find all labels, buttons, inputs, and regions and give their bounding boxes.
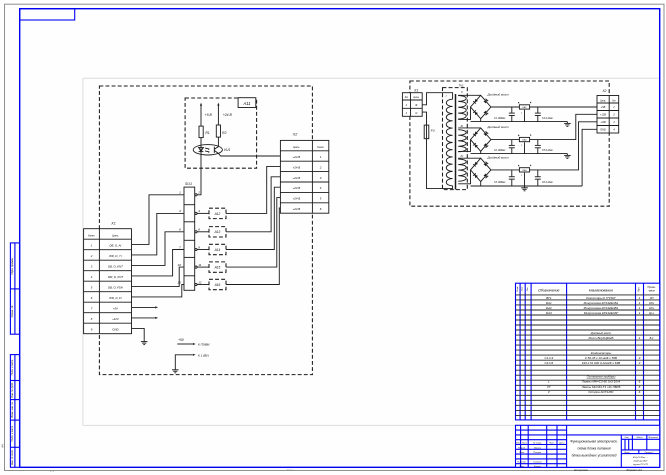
svg-text:Микросхема КР142ЕН5А: Микросхема КР142ЕН5А xyxy=(584,301,619,305)
svg-text:С1 1000мк: С1 1000мк xyxy=(494,118,506,120)
capacitor С1 1000мк xyxy=(511,107,513,113)
wire winding bottom to bridge VD5-VD8 left corner xyxy=(458,140,470,152)
svg-text:схема блока питания: схема блока питания xyxy=(577,447,611,451)
wire +12V output arrow xyxy=(132,317,156,319)
off-sheet K 1(VU) xyxy=(175,355,192,368)
svg-text:WR_D_FI: WR_D_FI xyxy=(109,296,121,300)
svg-text:+24 В: +24 В xyxy=(223,113,233,117)
svg-text:Х1: Х1 xyxy=(110,222,115,226)
SU1 right pin 4 junction xyxy=(195,212,197,214)
wire winding bottom to bridge VD9-VD12 left corner xyxy=(458,170,470,184)
svg-text:Перв. примен.: Перв. примен. xyxy=(10,257,14,275)
svg-text:-12В: -12В xyxy=(600,121,606,124)
svg-text:К 1.(ВУ): К 1.(ВУ) xyxy=(198,353,209,357)
SU1 right pin 12 junction xyxy=(195,283,197,285)
wire channel3 out to X2.3 xyxy=(530,122,597,170)
svg-text:12: 12 xyxy=(198,280,202,284)
svg-text:DA1: DA1 xyxy=(546,301,552,305)
svg-text:1:1: 1:1 xyxy=(50,469,54,473)
svg-text:Подп. и дата: Подп. и дата xyxy=(11,425,14,441)
left margin stamp column group 1 xyxy=(10,243,19,334)
wire SU1 to A16 xyxy=(197,284,209,286)
regulator DA3 xyxy=(519,168,529,172)
title block xyxy=(516,425,660,467)
svg-text:Утв.: Утв. xyxy=(519,466,524,468)
svg-text:Микросхема КР142ЕН8А: Микросхема КР142ЕН8А xyxy=(584,306,619,310)
svg-text:Масса: Масса xyxy=(637,437,644,439)
wire winding top to bridge VD9-VD12 xyxy=(458,157,481,159)
drawing area guide lines xyxy=(83,77,660,79)
wire X1 pin 4 to SU1 xyxy=(132,250,185,276)
wire GND to ground xyxy=(132,328,145,339)
element A14 (dashed box) xyxy=(209,244,226,254)
capacitor С5 0,22мк xyxy=(537,140,539,146)
wire A15 to X2 pin 5 xyxy=(226,198,280,268)
svg-text:А15: А15 xyxy=(214,266,221,270)
VU1 LED xyxy=(199,147,204,151)
VU1 phototransistor xyxy=(213,147,215,153)
svg-text:Ф: Ф xyxy=(415,103,417,107)
svg-text:+5V: +5V xyxy=(178,338,185,342)
svg-text:III: III xyxy=(461,124,464,128)
svg-text:II: II xyxy=(461,90,463,94)
svg-text:блока выходных усилителей: блока выходных усилителей xyxy=(572,454,617,458)
wire R1 to optocoupler LED xyxy=(200,138,202,146)
svg-text:Масштаб: Масштаб xyxy=(649,437,659,439)
svg-text:+24 В: +24 В xyxy=(293,186,301,190)
svg-text:С6 0,22мк: С6 0,22мк xyxy=(542,182,554,184)
net +5V arrow (A11) xyxy=(200,105,202,126)
svg-text:С2 1000мк: С2 1000мк xyxy=(494,150,506,152)
wire bridge VD5-VD8 bottom to rail xyxy=(480,151,482,153)
svg-text:Конт: Конт xyxy=(317,145,324,149)
svg-text:11: 11 xyxy=(198,263,201,267)
svg-text:Н.контр.: Н.контр. xyxy=(517,462,526,464)
svg-text:Х1: Х1 xyxy=(413,88,418,92)
svg-text:Пров.: Пров. xyxy=(519,452,525,454)
svg-text:+24 В: +24 В xyxy=(293,207,301,211)
svg-text:Справ. №: Справ. № xyxy=(10,305,14,317)
svg-text:Зона: Зона xyxy=(522,287,524,291)
svg-text:+24 В: +24 В xyxy=(293,165,301,169)
svg-text:А13: А13 xyxy=(214,230,221,234)
svg-text:Подп. и дата: Подп. и дата xyxy=(11,359,14,375)
wire bridge VD5-VD8 output xyxy=(491,139,519,141)
diode bridge VD9-VD12 xyxy=(471,158,491,181)
VU1 light arrows xyxy=(205,148,209,152)
svg-text:Резисторы К ГПЛНТ: Резисторы К ГПЛНТ xyxy=(586,296,617,300)
svg-text:А12: А12 xyxy=(214,212,221,216)
svg-text:Цепь: Цепь xyxy=(293,145,300,149)
svg-text:Лист: Лист xyxy=(623,452,629,454)
wire winding bottom to bridge VD1-VD4 left corner xyxy=(458,107,470,119)
svg-text:SU1: SU1 xyxy=(185,182,192,186)
rail channel 3 xyxy=(471,185,583,187)
left margin stamp column group 2 xyxy=(10,355,19,468)
wire regulator DA3 common pin xyxy=(524,173,526,186)
optocoupler VU1 xyxy=(193,145,222,155)
svg-text:1: 1 xyxy=(521,112,522,114)
power block boundary (dashed) xyxy=(410,81,609,206)
svg-text:Петров: Петров xyxy=(534,452,543,454)
capacitor С6 0,22мк xyxy=(537,170,539,177)
svg-text:Обозначение: Обозначение xyxy=(538,288,559,292)
svg-text:Оптрон АОТ128С: Оптрон АОТ128С xyxy=(588,390,614,394)
svg-text:Разраб.: Разраб. xyxy=(518,447,526,449)
wire SU1 to A14 xyxy=(197,249,209,251)
wire channel3 rail to X2.4 (GND) xyxy=(582,129,597,186)
svg-text:ЮУрГУ-Мех. ...: ЮУрГУ-Мех. ... xyxy=(633,457,649,459)
sub-block A11 boundary (dashed) xyxy=(185,98,257,168)
svg-text:Подп.: Подп. xyxy=(549,442,555,445)
ground (off-sheet) xyxy=(172,368,179,373)
svg-text:Лампы МН=С3-60 3х3-10х4: Лампы МН=С3-60 3х3-10х4 xyxy=(581,380,621,384)
wire A16 to X2 pin 6 xyxy=(226,208,280,285)
svg-text:DA2: DA2 xyxy=(546,306,552,310)
fuse FU1 xyxy=(424,125,429,139)
svg-text:+24 В: +24 В xyxy=(293,155,301,159)
BOM parts table xyxy=(516,283,660,420)
wire regulator DA2 common pin xyxy=(524,142,526,153)
svg-text:Козлов: Козлов xyxy=(534,466,542,468)
regulator DA1 xyxy=(519,105,529,109)
svg-text:R2: R2 xyxy=(222,131,226,135)
svg-text:Лист: Лист xyxy=(285,468,294,472)
svg-text:10: 10 xyxy=(177,263,181,267)
svg-text:К ПЭВМ: К ПЭВМ xyxy=(198,343,210,347)
wire R2 to optocoupler transistor xyxy=(217,137,219,147)
svg-text:Листов 1: Листов 1 xyxy=(644,452,654,454)
svg-text:Формат А4: Формат А4 xyxy=(626,468,642,472)
svg-text:КР.н: КР.н xyxy=(649,307,654,310)
wire X1.1 to primary top xyxy=(422,93,452,105)
element A15 (dashed box) xyxy=(209,262,226,272)
svg-text:А4: А4 xyxy=(0,444,4,448)
svg-text:DB_O_AI: DB_O_AI xyxy=(109,244,121,248)
sub-block A11 label box xyxy=(238,98,256,108)
top-left stamp box xyxy=(20,9,75,20)
svg-text:Кт: Кт xyxy=(405,97,408,99)
svg-text:N: N xyxy=(415,111,417,115)
svg-text:№ докум.: № докум. xyxy=(533,442,542,445)
net +24V arrow (A11) xyxy=(217,105,219,125)
svg-text:Остальные приборы: Остальные приборы xyxy=(587,375,617,379)
rail channel 1 xyxy=(471,121,568,123)
svg-text:Изм: Изм xyxy=(516,443,520,445)
svg-text:Дата: Дата xyxy=(558,443,565,445)
svg-text:Диодный мост: Диодный мост xyxy=(487,156,510,160)
svg-text:Взам. инв. №: Взам. инв. № xyxy=(11,402,14,418)
wire VU1 emitter to X2 pin 1 xyxy=(219,154,281,156)
svg-text:Иванов: Иванов xyxy=(534,447,542,449)
svg-text:Диодный мост: Диодный мост xyxy=(487,125,510,129)
svg-text:Поз.: Поз. xyxy=(527,287,529,291)
svg-text:1: 1 xyxy=(521,175,522,177)
wire fuse to primary bottom xyxy=(427,139,453,189)
resistor R2 xyxy=(216,125,220,137)
svg-text:Лит.: Лит. xyxy=(623,437,629,439)
SU1 right pin 9 junction xyxy=(195,248,197,250)
svg-text:1: 1 xyxy=(521,145,522,147)
wire A14 to X2 pin 4 xyxy=(226,187,280,249)
SU1 right pin 2 junction xyxy=(195,194,197,196)
svg-text:DB_O_KNT: DB_O_KNT xyxy=(108,265,123,269)
svg-text:Кол.: Кол. xyxy=(637,287,640,292)
svg-text:R1: R1 xyxy=(205,131,209,135)
transformer TV1 boundary (dashed) xyxy=(443,88,468,190)
svg-text:ВУ1: ВУ1 xyxy=(546,296,552,300)
svg-text:Диодный мост: Диодный мост xyxy=(590,331,612,335)
svg-text:VU1: VU1 xyxy=(224,148,231,152)
SU1 right pin 8 junction xyxy=(195,231,197,233)
svg-text:2: 2 xyxy=(319,165,322,169)
wire bridge VD9-VD12 bottom to rail xyxy=(480,182,482,186)
element A12 (dashed box) xyxy=(209,208,226,218)
svg-text:Наименование: Наименование xyxy=(589,288,613,292)
svg-text:А11: А11 xyxy=(242,101,250,106)
ground channel 2 xyxy=(564,154,571,159)
svg-text:Кр.н: Кр.н xyxy=(649,312,655,315)
svg-text:ТV1: ТV1 xyxy=(458,83,464,87)
svg-text:Сидоров: Сидоров xyxy=(533,461,542,464)
svg-text:С4 0,22мк: С4 0,22мк xyxy=(542,117,554,120)
svg-text:С3 1000мк: С3 1000мк xyxy=(494,182,506,184)
wire regulator DA1 common pin xyxy=(524,110,526,122)
svg-text:DA3: DA3 xyxy=(546,311,552,315)
svg-text:К10-17А 630 0,22мкФ х 63В: К10-17А 630 0,22мкФ х 63В xyxy=(582,361,620,365)
svg-text:+5 В: +5 В xyxy=(205,113,213,117)
rail channel 2 xyxy=(471,153,568,155)
wire X1 pin 2 to SU1 xyxy=(132,213,185,255)
svg-text:КР.н: КР.н xyxy=(649,302,654,305)
svg-text:Кафедра АиУ: Кафедра АиУ xyxy=(634,459,648,462)
capacitor С4 0,22мк xyxy=(537,107,539,113)
svg-text:Инв. № дубл.: Инв. № дубл. xyxy=(11,382,14,398)
wire VU1 LED cathode to SU1 pin 2 xyxy=(197,155,201,195)
svg-text:В-1: В-1 xyxy=(650,337,655,340)
svg-text:Копировал: Копировал xyxy=(574,468,588,472)
wire X1 pin 3 to SU1 xyxy=(132,232,185,266)
svg-text:Конденсаторы: Конденсаторы xyxy=(591,351,612,355)
svg-text:Функциональная электрическ.: Функциональная электрическ. xyxy=(570,440,618,444)
SU1 right pin 11 junction xyxy=(195,266,197,268)
ground channel 1 xyxy=(564,122,571,127)
svg-text:Х2: Х2 xyxy=(601,89,606,93)
resistor R1 xyxy=(199,126,203,138)
wire A12 to X2 pin 2 xyxy=(226,166,280,213)
wire bridge VD9-VD12 output xyxy=(491,169,519,171)
svg-text:Х2: Х2 xyxy=(292,133,297,137)
svg-text:А14: А14 xyxy=(214,248,221,252)
svg-text:С5 0,22мк: С5 0,22мк xyxy=(542,150,554,152)
svg-text:Кт: Кт xyxy=(612,100,615,102)
element A13 (dashed box) xyxy=(209,227,226,237)
wire X1.2 to fuse xyxy=(422,112,426,125)
svg-text:Цепь: Цепь xyxy=(112,234,119,238)
svg-text:WR_D_YI: WR_D_YI xyxy=(109,254,122,258)
svg-text:DB_O_FSH: DB_O_FSH xyxy=(108,286,124,290)
svg-text:С4-С6: С4-С6 xyxy=(544,361,553,365)
svg-text:WR_D_KNT: WR_D_KNT xyxy=(108,275,124,279)
diode bridge VD1-VD4 xyxy=(471,95,491,118)
wire X1 pin 5 to SU1 xyxy=(132,267,185,286)
svg-text:+24 В: +24 В xyxy=(293,176,301,180)
wire A13 to X2 pin 3 xyxy=(226,177,280,232)
svg-text:Мост ВЦ КЦ402Б: Мост ВЦ КЦ402Б xyxy=(589,336,614,340)
svg-text:Конт: Конт xyxy=(88,234,95,238)
svg-text:Лист: Лист xyxy=(521,443,527,445)
svg-text:Цепь: Цепь xyxy=(414,97,420,99)
capacitor С2 1000мк xyxy=(511,140,513,146)
regulator DA2 xyxy=(519,137,529,141)
wire SU1 to A12 xyxy=(197,212,209,214)
svg-text:Приме-: Приме- xyxy=(648,286,656,289)
ground channel 3 xyxy=(521,186,528,191)
svg-text:чание: чание xyxy=(648,290,655,293)
transformer core xyxy=(455,94,457,190)
svg-text:+5В: +5В xyxy=(601,106,606,109)
svg-text:С1-С3: С1-С3 xyxy=(544,356,553,360)
wire winding top to bridge VD1-VD4 xyxy=(458,94,481,96)
svg-text:+12V: +12V xyxy=(112,317,120,321)
svg-text:группа ПС-271: группа ПС-271 xyxy=(633,464,649,466)
ground (X1 GND) xyxy=(141,340,148,345)
wire X1 pin 6 to SU1 xyxy=(132,285,185,297)
svg-text:Микросхема КР142ЕН8Г: Микросхема КР142ЕН8Г xyxy=(584,311,619,315)
svg-text:GND: GND xyxy=(600,129,606,132)
wire +5V output arrow xyxy=(132,306,156,308)
svg-text:Лампы МН=63-Т1 х3х.ЛВУБ: Лампы МН=63-Т1 х3х.ЛВУБ xyxy=(581,385,621,389)
wire SU1 to A13 xyxy=(197,231,209,233)
wire SU1 to A15 xyxy=(197,266,209,268)
svg-text:Форм.: Форм. xyxy=(516,286,519,292)
block A1 boundary (dashed) xyxy=(99,86,312,375)
svg-text:DA1: DA1 xyxy=(522,106,526,109)
svg-text:FU.: FU. xyxy=(431,128,436,132)
wire winding top to bridge VD5-VD8 xyxy=(458,127,481,129)
svg-text:Цепь: Цепь xyxy=(600,100,606,102)
wire channel2 out to X2.2 xyxy=(530,114,597,139)
svg-text:МЛ: МЛ xyxy=(650,297,654,300)
svg-text:Диодный мост: Диодный мост xyxy=(487,93,510,97)
svg-text:2: 2 xyxy=(90,254,93,258)
svg-text:К 50-35 к 10 мкФ х 50В: К 50-35 к 10 мкФ х 50В xyxy=(585,356,617,360)
svg-text:А16: А16 xyxy=(214,283,221,287)
svg-text:Инв. № подл.: Инв. № подл. xyxy=(11,449,14,465)
wire X1 pin 1 to SU1 xyxy=(132,195,185,245)
element A16 (dashed box) xyxy=(209,279,226,289)
wire bridge VD1-VD4 output xyxy=(491,106,519,108)
svg-text:+12В: +12В xyxy=(600,114,606,117)
svg-text:2: 2 xyxy=(197,191,200,195)
wire bridge VD1-VD4 bottom to rail xyxy=(480,119,482,122)
diode bridge VD5-VD8 xyxy=(471,128,491,151)
svg-text:+24 В: +24 В xyxy=(293,197,301,201)
wire channel1 out to X2.1 xyxy=(530,106,597,108)
svg-text:GND: GND xyxy=(112,328,118,332)
capacitor С3 1000мк xyxy=(511,170,513,177)
